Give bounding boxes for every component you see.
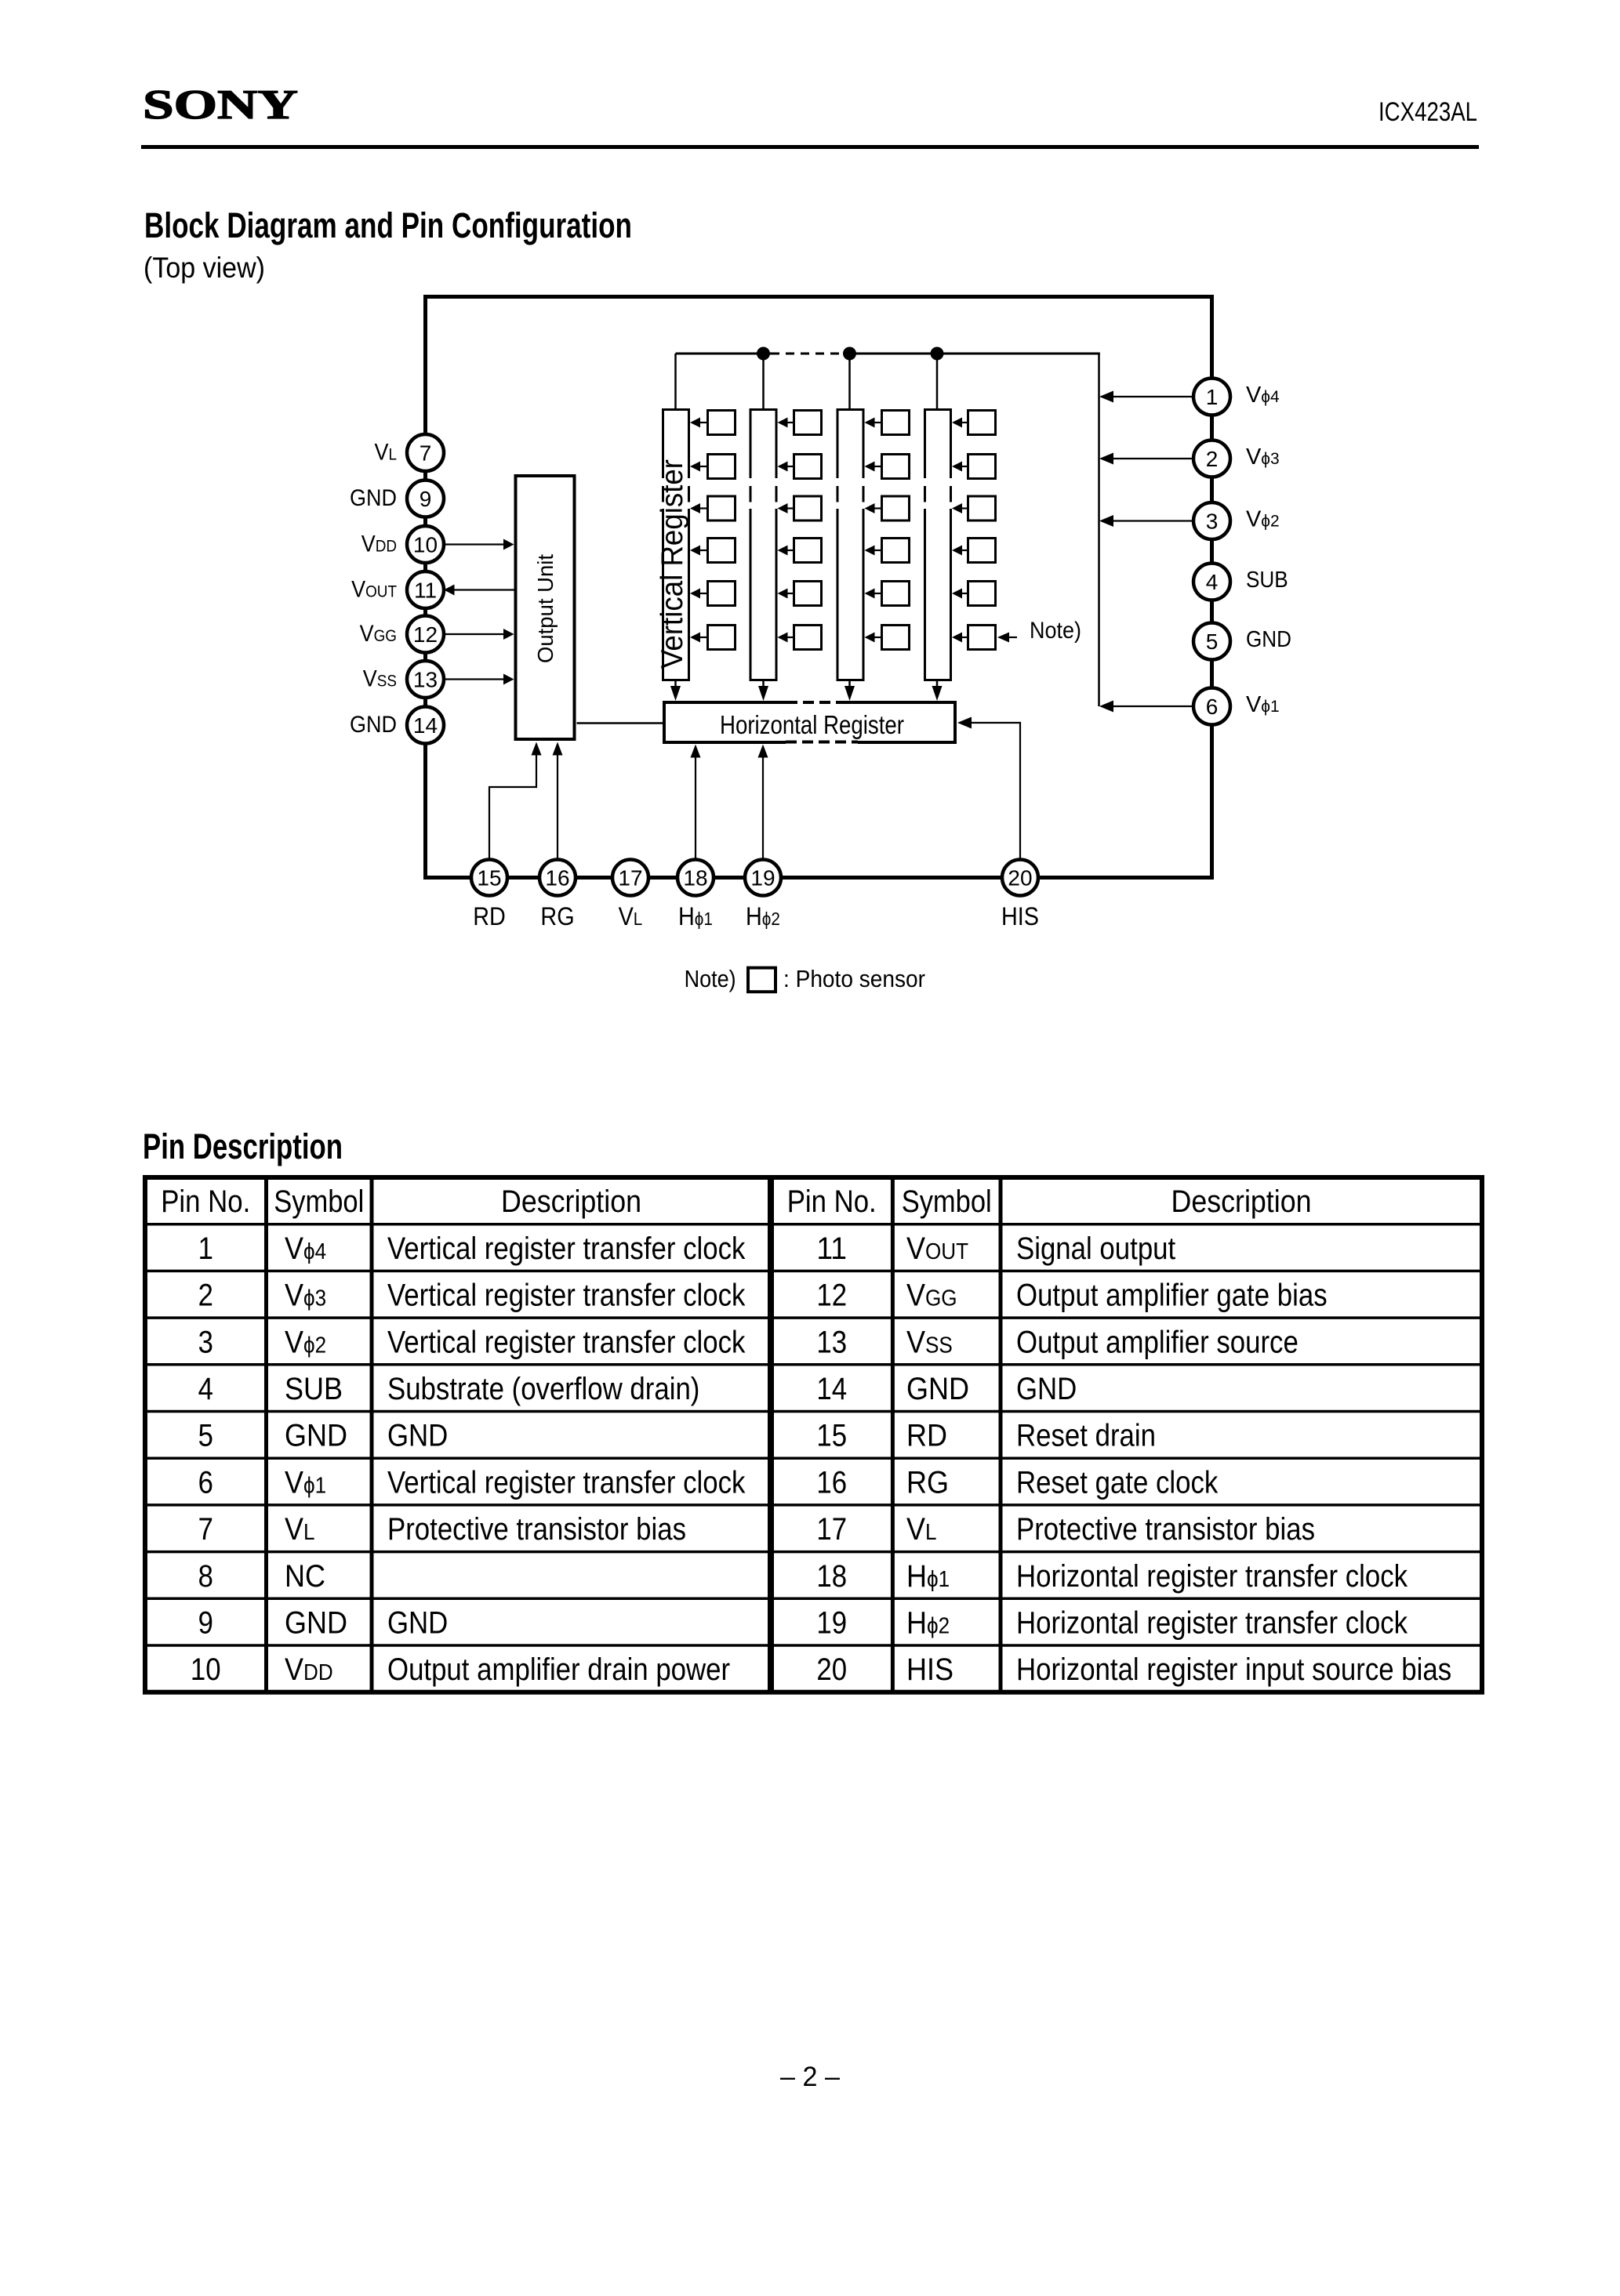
svg-text:9: 9 — [420, 487, 432, 511]
svg-text:Horizontal register input sour: Horizontal register input source bias — [1016, 1652, 1451, 1687]
table row pin 12 — [816, 1279, 1327, 1313]
svg-text:Horizontal Register: Horizontal Register — [720, 710, 904, 739]
svg-text:1: 1 — [1206, 385, 1219, 409]
svg-text:HIS: HIS — [1001, 902, 1039, 930]
pin 10 circle — [407, 526, 444, 563]
pin 19 label — [746, 902, 780, 930]
svg-text:HIS: HIS — [906, 1652, 953, 1687]
pin 3 label — [1246, 507, 1280, 532]
svg-text:L: L — [303, 1520, 315, 1545]
photo sensor col1 row3 — [690, 496, 736, 520]
svg-text:V: V — [375, 440, 389, 466]
wire output unit to pin 11 VOUT — [444, 585, 514, 596]
svg-text:Output amplifier gate bias: Output amplifier gate bias — [1016, 1279, 1328, 1313]
svg-text:7: 7 — [198, 1512, 213, 1547]
pin 19 circle — [745, 860, 781, 896]
svg-text:OUT: OUT — [925, 1239, 968, 1264]
svg-text:GND: GND — [285, 1605, 347, 1640]
pin 14 label — [350, 712, 397, 738]
photo sensor col2 row6 — [778, 626, 822, 650]
svg-text:RD: RD — [473, 902, 506, 930]
svg-text:Description: Description — [501, 1184, 641, 1219]
svg-text:Symbol: Symbol — [902, 1184, 992, 1219]
arrow vertical register 1 to horizontal register — [670, 681, 681, 701]
svg-text:14: 14 — [816, 1372, 847, 1406]
svg-text:Vertical register transfer clo: Vertical register transfer clock — [387, 1279, 746, 1313]
svg-text:H: H — [678, 902, 695, 930]
horizontal register — [664, 699, 955, 745]
table grid — [145, 1177, 1482, 1692]
svg-text:V: V — [360, 621, 374, 647]
table row pin 5 — [198, 1419, 449, 1453]
photo sensor col1 row4 — [690, 539, 736, 563]
pin 18 circle — [677, 860, 714, 896]
pin 11 circle — [407, 571, 444, 608]
svg-text:V: V — [285, 1325, 303, 1359]
table row pin 9 — [198, 1605, 449, 1640]
wire pin 10 VDD to output unit — [444, 539, 514, 550]
svg-text:RG: RG — [540, 902, 574, 930]
svg-text:Note): Note) — [1030, 618, 1081, 644]
svg-text:19: 19 — [816, 1605, 847, 1640]
pin 6 label — [1246, 692, 1280, 717]
svg-text:20: 20 — [816, 1652, 847, 1687]
svg-text:Horizontal register transfer c: Horizontal register transfer clock — [1016, 1605, 1408, 1640]
vertical register column 4 — [923, 410, 953, 680]
pin 4 circle — [1193, 564, 1230, 600]
pin 5 circle — [1193, 623, 1230, 660]
svg-text:: Photo sensor: : Photo sensor — [783, 966, 925, 992]
photo sensor col4 row2 — [952, 455, 996, 479]
photo sensor col1 row6 — [690, 626, 736, 650]
top clock bus — [676, 353, 1100, 355]
svg-text:12: 12 — [816, 1279, 847, 1313]
svg-text:V: V — [285, 1465, 303, 1500]
wire pin 16 RG to output unit — [553, 742, 563, 860]
svg-text:V: V — [285, 1652, 303, 1687]
svg-text:(Top view): (Top view) — [143, 252, 265, 284]
table row pin 10 — [191, 1652, 730, 1687]
photo sensor col2 row5 — [778, 582, 822, 606]
pin 1 circle — [1193, 379, 1230, 415]
pin 3 circle — [1193, 502, 1230, 539]
svg-text:13: 13 — [816, 1325, 847, 1359]
arrow vertical register 2 to horizontal register — [758, 681, 768, 701]
svg-text:ϕ2: ϕ2 — [1261, 513, 1279, 531]
svg-text:GND: GND — [1016, 1372, 1077, 1406]
vertical register column 3 — [836, 410, 866, 680]
svg-text:V: V — [906, 1231, 925, 1266]
svg-text:– 2 –: – 2 – — [780, 2062, 841, 2092]
svg-text:13: 13 — [413, 668, 438, 692]
svg-text:SONY: SONY — [143, 82, 298, 128]
svg-text:V: V — [285, 1512, 303, 1547]
svg-text:ϕ3: ϕ3 — [303, 1286, 326, 1311]
pin 9 label — [350, 485, 397, 511]
svg-text:Reset drain: Reset drain — [1016, 1419, 1156, 1453]
svg-text:GND: GND — [387, 1419, 448, 1453]
svg-text:ϕ1: ϕ1 — [1261, 698, 1279, 716]
table row pin 17 — [816, 1512, 1315, 1547]
svg-text:Vertical register transfer clo: Vertical register transfer clock — [387, 1465, 746, 1500]
photo sensor col3 row6 — [865, 626, 910, 650]
photo sensor col3 row5 — [865, 582, 910, 606]
wire pin 1 to clock feed — [1099, 391, 1193, 403]
svg-text:3: 3 — [1206, 510, 1219, 534]
svg-text:11: 11 — [816, 1231, 847, 1266]
svg-text:Signal output: Signal output — [1016, 1231, 1175, 1266]
svg-text:ϕ2: ϕ2 — [303, 1333, 326, 1358]
pin 13 label — [363, 666, 397, 692]
svg-text:SS: SS — [377, 673, 397, 691]
svg-text:H: H — [906, 1605, 927, 1640]
svg-text:GG: GG — [925, 1286, 957, 1311]
wire pin 2 to clock feed — [1099, 453, 1193, 465]
svg-text:L: L — [925, 1520, 937, 1545]
svg-text:12: 12 — [413, 622, 438, 647]
svg-text:H: H — [746, 902, 762, 930]
svg-text:Protective transistor bias: Protective transistor bias — [1016, 1512, 1315, 1547]
svg-text:ϕ2: ϕ2 — [762, 909, 780, 929]
svg-text:1: 1 — [198, 1231, 213, 1266]
table row pin 8 — [198, 1559, 325, 1594]
photo sensor col2 row4 — [778, 539, 822, 563]
svg-text:Output amplifier drain power: Output amplifier drain power — [387, 1652, 730, 1687]
svg-text:4: 4 — [198, 1372, 213, 1406]
svg-text:DD: DD — [303, 1660, 333, 1685]
svg-text:OUT: OUT — [365, 583, 397, 601]
svg-text:7: 7 — [420, 441, 432, 466]
svg-text:16: 16 — [816, 1465, 847, 1500]
svg-text:16: 16 — [545, 866, 569, 890]
svg-text:GND: GND — [1246, 627, 1291, 652]
pin 16 circle — [539, 860, 576, 896]
pin 13 circle — [407, 661, 444, 698]
table row pin 14 — [816, 1372, 1077, 1406]
svg-text:GND: GND — [387, 1605, 448, 1640]
pin 14 circle — [407, 707, 444, 744]
photo sensor col2 row2 — [778, 455, 822, 479]
table row pin 18 — [816, 1559, 1408, 1594]
wire bus to vertical register 4 — [936, 354, 939, 409]
svg-text:V: V — [361, 531, 376, 557]
svg-text:ϕ4: ϕ4 — [1261, 388, 1280, 406]
svg-text:10: 10 — [191, 1652, 221, 1687]
svg-text:14: 14 — [413, 713, 438, 738]
table row pin 20 — [816, 1652, 1451, 1687]
svg-text:ϕ3: ϕ3 — [1261, 450, 1279, 468]
svg-text:Substrate (overflow drain): Substrate (overflow drain) — [387, 1372, 699, 1406]
svg-text:V: V — [1246, 692, 1262, 717]
table row pin 16 — [816, 1465, 1219, 1500]
svg-text:10: 10 — [413, 533, 438, 557]
svg-text:3: 3 — [198, 1325, 213, 1359]
svg-text:Vertical register transfer clo: Vertical register transfer clock — [387, 1325, 746, 1359]
arrow vertical register 3 to horizontal register — [845, 681, 855, 701]
photo sensor col3 row2 — [865, 455, 910, 479]
svg-text:GND: GND — [350, 712, 397, 738]
wire bus to vertical register 1 — [674, 354, 677, 409]
wire output unit to horizontal register — [577, 722, 663, 724]
svg-text:SUB: SUB — [285, 1372, 343, 1406]
svg-text:Pin Description: Pin Description — [143, 1126, 343, 1166]
table row pin 4 — [198, 1372, 700, 1406]
svg-text:ϕ2: ϕ2 — [927, 1613, 950, 1638]
svg-text:GND: GND — [350, 485, 397, 511]
svg-text:8: 8 — [198, 1559, 213, 1594]
svg-text:RD: RD — [906, 1419, 947, 1453]
pin 7 circle — [407, 434, 444, 471]
arrow vertical register 4 to horizontal register — [932, 681, 943, 701]
photo sensor col2 row1 — [778, 411, 822, 435]
svg-text:4: 4 — [1206, 570, 1219, 594]
svg-text:ϕ4: ϕ4 — [303, 1239, 326, 1264]
pin 2 label — [1246, 444, 1280, 470]
table row pin 15 — [816, 1419, 1156, 1453]
photo sensor col1 row2 — [690, 455, 736, 479]
svg-text:ϕ1: ϕ1 — [927, 1567, 950, 1592]
junction dot J1 — [757, 347, 770, 361]
svg-text:RG: RG — [906, 1465, 949, 1500]
pin 7 label — [375, 440, 398, 466]
svg-text:Output amplifier source: Output amplifier source — [1016, 1325, 1299, 1359]
svg-text:11: 11 — [414, 579, 437, 603]
svg-text:Pin No.: Pin No. — [161, 1184, 250, 1219]
photo sensor col1 row1 — [690, 411, 736, 435]
svg-text:SS: SS — [925, 1333, 953, 1358]
svg-text:GND: GND — [906, 1372, 969, 1406]
pin 15 label — [473, 902, 506, 930]
svg-text:18: 18 — [816, 1559, 847, 1594]
wire pin 19 H2 to horizontal register — [758, 745, 768, 860]
svg-text:V: V — [285, 1231, 303, 1266]
svg-text:5: 5 — [198, 1419, 213, 1453]
photo sensor col4 row4 — [952, 539, 996, 563]
wire pin 15 RD to output unit — [489, 742, 542, 860]
table row pin 3 — [198, 1325, 746, 1359]
wire pin 12 VGG to output unit — [444, 629, 514, 640]
svg-text:Reset gate clock: Reset gate clock — [1016, 1465, 1219, 1500]
svg-text:15: 15 — [477, 866, 501, 890]
svg-text:ϕ1: ϕ1 — [695, 909, 713, 929]
svg-text:Output Unit: Output Unit — [533, 554, 558, 663]
svg-text:V: V — [619, 902, 634, 930]
svg-text:GG: GG — [374, 627, 397, 645]
pin 18 label — [678, 902, 713, 930]
pin 11 label — [351, 577, 397, 603]
svg-text:Note): Note) — [685, 966, 736, 992]
pin 4 label — [1246, 568, 1288, 593]
wire bus to vertical register 2 — [762, 354, 765, 409]
svg-text:2: 2 — [198, 1279, 213, 1313]
svg-text:Symbol: Symbol — [274, 1184, 364, 1219]
photo sensor col3 row4 — [865, 539, 910, 563]
photo sensor col3 row1 — [865, 411, 910, 435]
svg-text:Description: Description — [1171, 1184, 1312, 1219]
svg-text:NC: NC — [285, 1559, 325, 1594]
pin 17 circle — [612, 860, 648, 896]
svg-text:5: 5 — [1206, 629, 1219, 654]
junction dot J2 — [843, 347, 856, 361]
svg-text:Protective transistor bias: Protective transistor bias — [387, 1512, 686, 1547]
table row pin 13 — [816, 1325, 1298, 1359]
pin 20 circle — [1002, 860, 1038, 896]
table row pin 11 — [816, 1231, 1175, 1266]
pin 9 circle — [407, 481, 444, 517]
svg-text:H: H — [906, 1559, 927, 1594]
pin 16 label — [540, 902, 574, 930]
pin 5 label — [1246, 627, 1291, 652]
pin 20 label — [1001, 902, 1039, 930]
table row pin 7 — [198, 1512, 686, 1547]
pin 17 label — [619, 902, 643, 930]
wire pin 20 HIS to horizontal register — [957, 717, 1020, 860]
svg-text:Horizontal register transfer c: Horizontal register transfer clock — [1016, 1559, 1408, 1594]
svg-text:20: 20 — [1008, 866, 1032, 890]
svg-text:ϕ1: ϕ1 — [303, 1473, 326, 1498]
table header row — [161, 1184, 1311, 1219]
svg-text:ICX423AL: ICX423AL — [1378, 97, 1477, 127]
svg-text:17: 17 — [618, 866, 642, 890]
svg-text:V: V — [363, 666, 377, 692]
photo sensor col2 row3 — [778, 496, 822, 520]
svg-text:19: 19 — [750, 866, 775, 890]
junction dot J3 — [931, 347, 944, 361]
photo sensor col4 row3 — [952, 496, 996, 520]
svg-text:L: L — [389, 446, 398, 464]
svg-text:GND: GND — [285, 1419, 347, 1453]
pin 1 label — [1246, 383, 1280, 408]
svg-text:18: 18 — [683, 866, 707, 890]
table row pin 2 — [198, 1279, 746, 1313]
wire pin 13 VSS to output unit — [444, 674, 514, 685]
pin 6 circle — [1193, 688, 1230, 725]
svg-text:L: L — [634, 909, 643, 929]
photo sensor col1 row5 — [690, 582, 736, 606]
svg-text:V: V — [906, 1279, 925, 1313]
photo sensor col3 row3 — [865, 496, 910, 520]
pin 12 label — [360, 621, 397, 647]
output unit U1 — [516, 476, 575, 739]
svg-text:15: 15 — [816, 1419, 847, 1453]
svg-text:6: 6 — [198, 1465, 213, 1500]
svg-text:V: V — [285, 1279, 303, 1313]
chip outline — [426, 297, 1212, 878]
table row pin 6 — [198, 1465, 746, 1500]
svg-text:9: 9 — [198, 1605, 213, 1640]
pin 10 label — [361, 531, 397, 557]
vertical register column 1 — [661, 410, 691, 680]
svg-text:SUB: SUB — [1246, 568, 1288, 593]
note pointer arrow — [997, 633, 1017, 643]
header rule — [141, 145, 1479, 149]
wire pin 6 to clock feed — [1099, 701, 1193, 713]
photo sensor col4 row5 — [952, 582, 996, 606]
svg-text:6: 6 — [1206, 695, 1219, 719]
pin 15 circle — [471, 860, 507, 896]
pin 2 circle — [1193, 441, 1230, 477]
svg-text:17: 17 — [816, 1512, 847, 1547]
svg-text:Pin No.: Pin No. — [787, 1184, 877, 1219]
svg-text:Block Diagram and Pin Configur: Block Diagram and Pin Configuration — [144, 205, 632, 245]
table row pin 1 — [198, 1231, 746, 1266]
table row pin 19 — [816, 1605, 1408, 1640]
svg-text:Vertical register transfer clo: Vertical register transfer clock — [387, 1231, 746, 1266]
svg-text:V: V — [906, 1325, 925, 1359]
svg-text:Vertical Register: Vertical Register — [656, 459, 689, 669]
pin 12 circle — [407, 616, 444, 653]
svg-text:V: V — [1246, 383, 1262, 408]
svg-text:V: V — [906, 1512, 925, 1547]
wire pin 3 to clock feed — [1099, 515, 1193, 527]
wire pin 18 H1 to horizontal register — [691, 745, 701, 860]
wire bus to vertical register 3 — [848, 354, 851, 409]
vertical register column 2 — [749, 410, 779, 680]
right clock feed wire — [1098, 353, 1100, 707]
legend photo sensor square — [748, 968, 775, 992]
svg-text:DD: DD — [376, 538, 397, 556]
svg-text:V: V — [1246, 444, 1262, 470]
photo sensor col4 row6 — [952, 626, 996, 650]
photo sensor col4 row1 — [952, 411, 996, 435]
svg-text:2: 2 — [1206, 447, 1219, 471]
svg-text:V: V — [1246, 507, 1262, 532]
svg-text:V: V — [351, 577, 365, 603]
